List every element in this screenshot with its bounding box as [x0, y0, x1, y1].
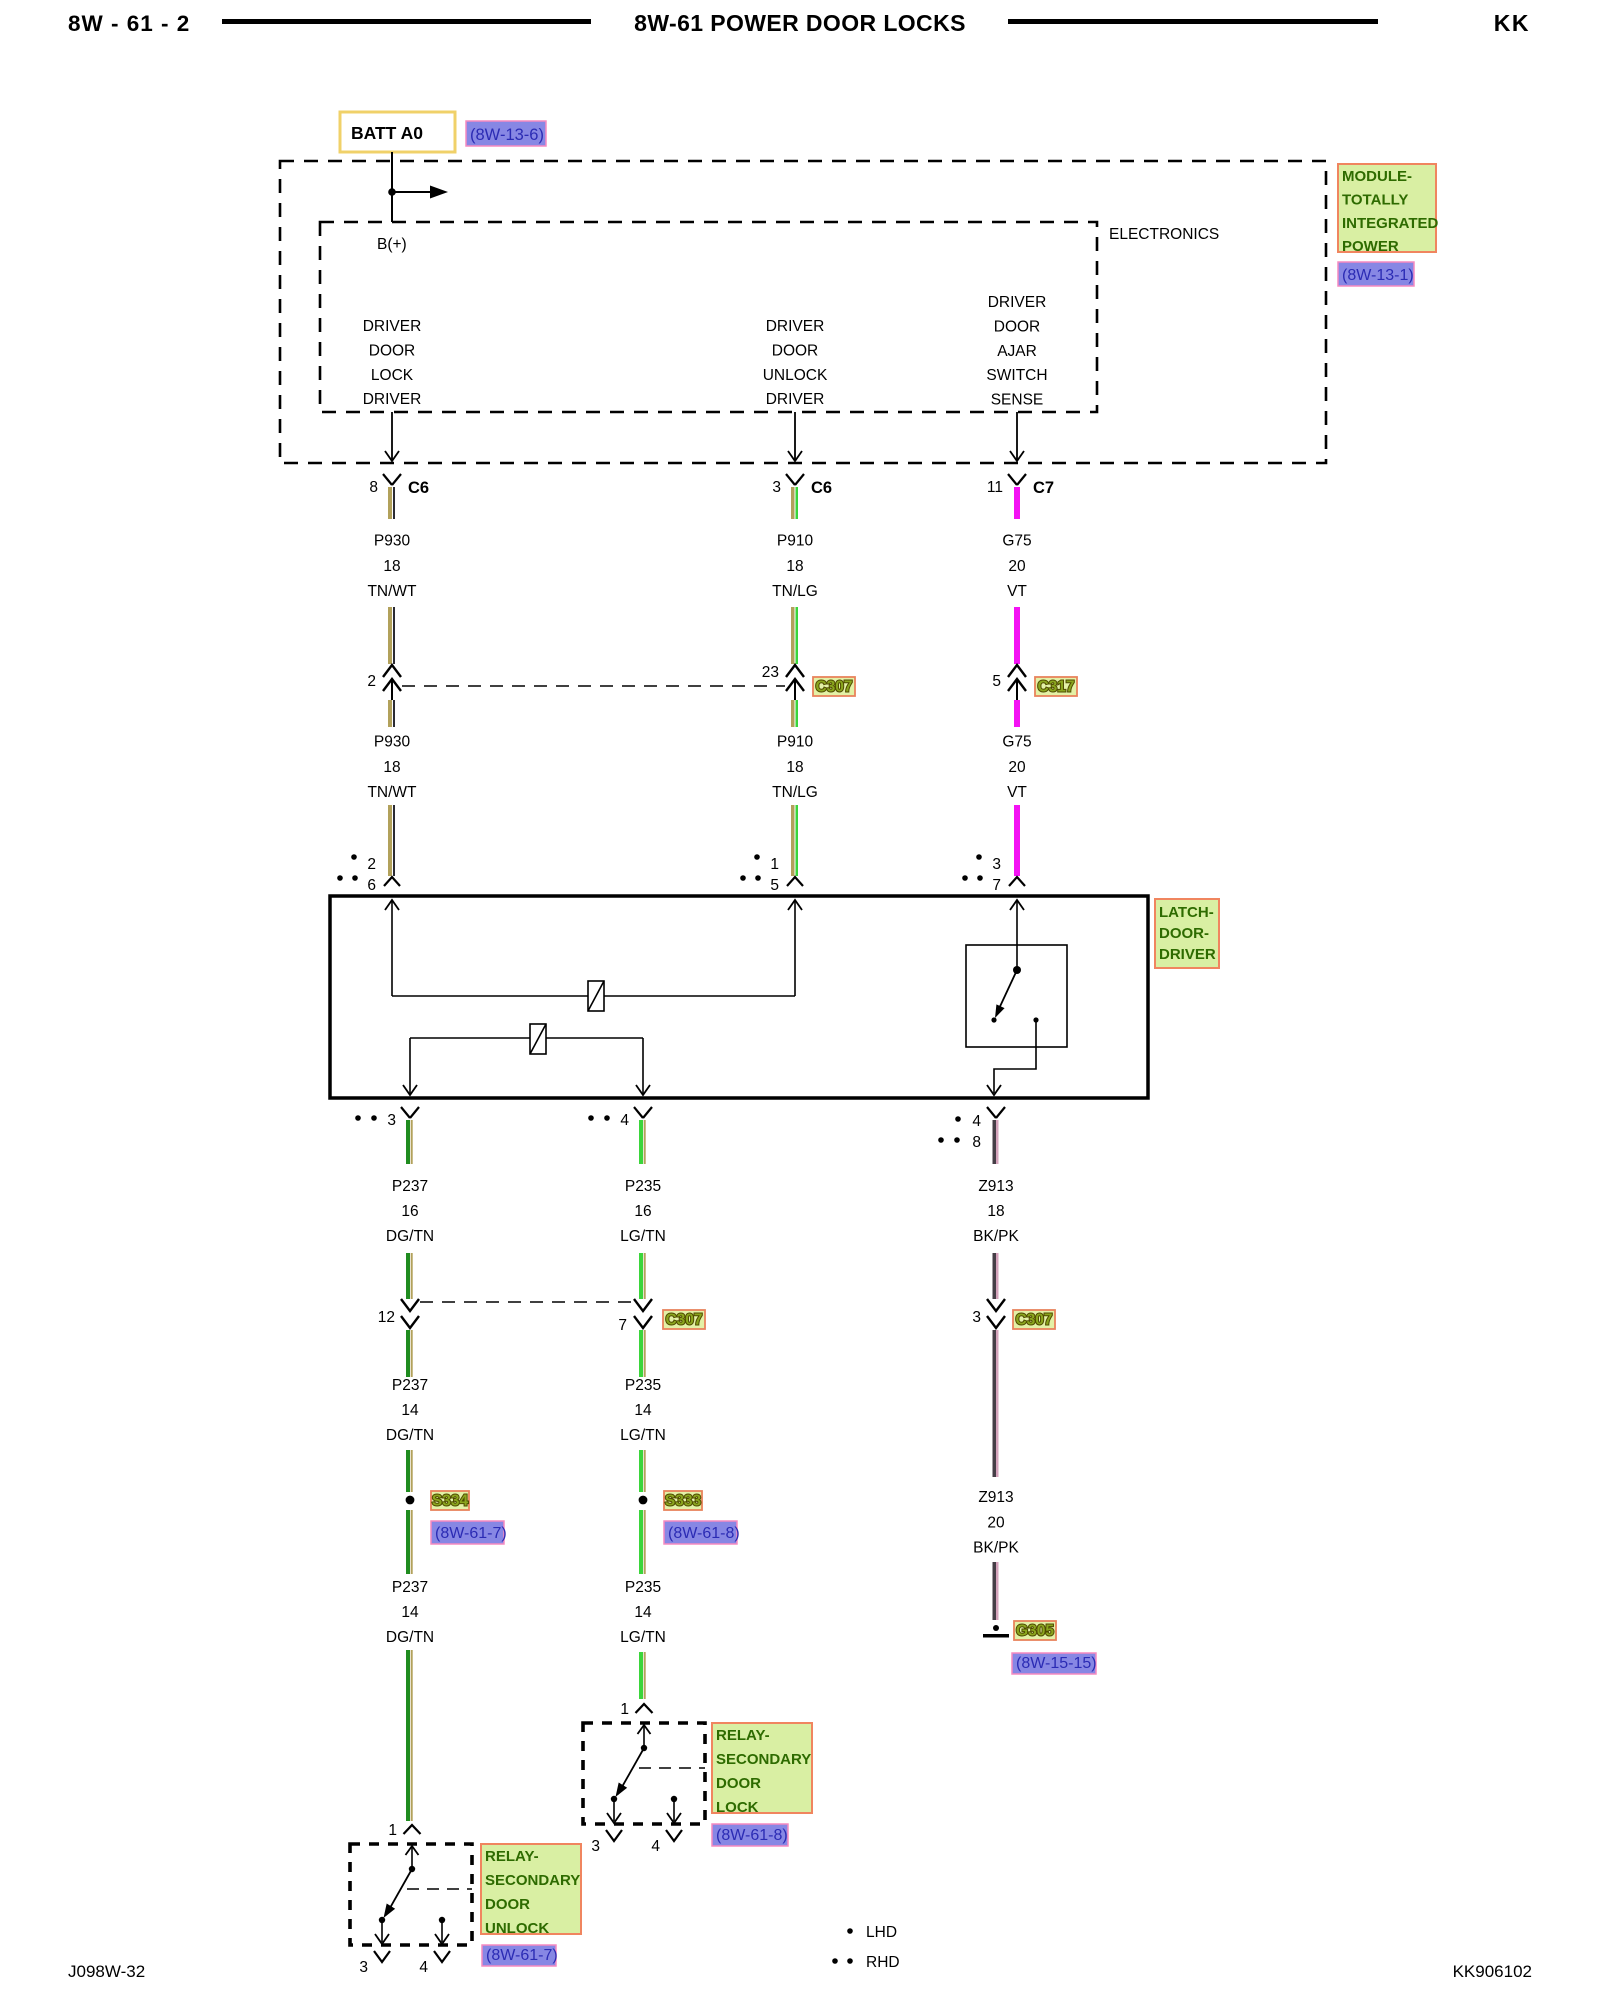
svg-text:7: 7: [992, 877, 1001, 894]
svg-text:DG/TN: DG/TN: [386, 1228, 434, 1245]
svg-text:SECONDARY: SECONDARY: [485, 1872, 580, 1889]
svg-text:P237: P237: [392, 1377, 428, 1394]
svg-text:LG/TN: LG/TN: [620, 1228, 666, 1245]
svg-text:LATCH-: LATCH-: [1159, 904, 1214, 921]
svg-text:RELAY-: RELAY-: [485, 1848, 539, 1865]
svg-text:23: 23: [762, 664, 779, 681]
svg-text:C6: C6: [408, 479, 429, 497]
svg-text:1: 1: [770, 856, 779, 873]
svg-text:AJAR: AJAR: [997, 343, 1037, 360]
svg-text:DOOR-: DOOR-: [1159, 925, 1209, 942]
svg-text:8W - 61 - 2: 8W - 61 - 2: [68, 11, 190, 36]
svg-text:DRIVER: DRIVER: [766, 318, 825, 335]
svg-text:DRIVER: DRIVER: [766, 391, 825, 408]
svg-text:3: 3: [772, 479, 781, 496]
svg-text:LOCK: LOCK: [716, 1799, 759, 1816]
svg-text:SECONDARY: SECONDARY: [716, 1751, 811, 1768]
svg-text:DG/TN: DG/TN: [386, 1427, 434, 1444]
svg-text:DOOR: DOOR: [772, 342, 819, 359]
svg-text:C307: C307: [815, 679, 852, 696]
svg-text:3: 3: [972, 1309, 981, 1326]
svg-text:TOTALLY: TOTALLY: [1342, 191, 1408, 208]
svg-text:LG/TN: LG/TN: [620, 1427, 666, 1444]
svg-text:C317: C317: [1037, 679, 1074, 696]
svg-text:Z913: Z913: [978, 1178, 1013, 1195]
svg-text:(8W-13-1): (8W-13-1): [1342, 267, 1414, 284]
svg-text:8: 8: [972, 1134, 981, 1151]
svg-text:3: 3: [387, 1112, 396, 1129]
svg-text:7: 7: [618, 1317, 627, 1334]
svg-text:DOOR: DOOR: [369, 342, 416, 359]
svg-text:P910: P910: [777, 533, 814, 550]
svg-text:LOCK: LOCK: [371, 367, 414, 384]
svg-text:TN/WT: TN/WT: [367, 583, 417, 600]
svg-text:14: 14: [634, 1604, 652, 1621]
svg-text:P235: P235: [625, 1579, 661, 1596]
svg-text:18: 18: [383, 759, 400, 776]
svg-text:VT: VT: [1007, 583, 1027, 600]
svg-text:(8W-13-6): (8W-13-6): [470, 126, 544, 144]
svg-text:SENSE: SENSE: [991, 392, 1044, 409]
svg-text:ELECTRONICS: ELECTRONICS: [1109, 226, 1219, 243]
svg-text:1: 1: [388, 1822, 397, 1839]
svg-text:KK: KK: [1494, 10, 1530, 36]
svg-text:B(+): B(+): [377, 236, 407, 253]
svg-text:20: 20: [1008, 558, 1026, 575]
svg-text:LG/TN: LG/TN: [620, 1629, 666, 1646]
svg-text:1: 1: [620, 1701, 629, 1718]
svg-text:KK906102: KK906102: [1453, 1962, 1532, 1981]
svg-text:18: 18: [987, 1203, 1004, 1220]
svg-text:DRIVER: DRIVER: [988, 294, 1047, 311]
svg-text:DOOR: DOOR: [994, 318, 1041, 335]
svg-text:14: 14: [634, 1402, 652, 1419]
svg-text:2: 2: [367, 673, 376, 690]
svg-text:P910: P910: [777, 734, 814, 751]
svg-text:C6: C6: [811, 479, 832, 497]
svg-text:20: 20: [1008, 759, 1026, 776]
svg-text:14: 14: [401, 1402, 419, 1419]
svg-text:SWITCH: SWITCH: [986, 367, 1047, 384]
svg-text:(8W-61-8): (8W-61-8): [668, 1525, 740, 1542]
svg-text:C307: C307: [1015, 1312, 1052, 1329]
svg-text:4: 4: [419, 1959, 428, 1976]
svg-text:S333: S333: [665, 1493, 702, 1510]
svg-text:8W-61 POWER DOOR LOCKS: 8W-61 POWER DOOR LOCKS: [634, 10, 966, 36]
svg-text:UNLOCK: UNLOCK: [485, 1920, 549, 1937]
svg-text:UNLOCK: UNLOCK: [763, 367, 828, 384]
svg-text:4: 4: [651, 1838, 660, 1855]
svg-text:INTEGRATED: INTEGRATED: [1342, 215, 1439, 232]
svg-text:P237: P237: [392, 1178, 428, 1195]
svg-text:(8W-15-15): (8W-15-15): [1016, 1655, 1097, 1672]
svg-text:Z913: Z913: [978, 1489, 1013, 1506]
svg-text:2: 2: [367, 856, 376, 873]
svg-text:5: 5: [770, 877, 779, 894]
svg-text:P235: P235: [625, 1377, 661, 1394]
svg-text:18: 18: [383, 558, 400, 575]
svg-text:DG/TN: DG/TN: [386, 1629, 434, 1646]
svg-text:RELAY-: RELAY-: [716, 1727, 770, 1744]
svg-text:(8W-61-7): (8W-61-7): [486, 1947, 558, 1964]
svg-text:S334: S334: [432, 1493, 469, 1510]
svg-text:J098W-32: J098W-32: [68, 1962, 145, 1981]
svg-text:P930: P930: [374, 734, 411, 751]
svg-text:TN/LG: TN/LG: [772, 583, 818, 600]
svg-text:4: 4: [620, 1112, 629, 1129]
svg-text:DOOR: DOOR: [716, 1775, 761, 1792]
svg-text:6: 6: [367, 877, 376, 894]
svg-text:20: 20: [987, 1514, 1005, 1531]
svg-text:C307: C307: [665, 1312, 702, 1329]
svg-text:TN/LG: TN/LG: [772, 784, 818, 801]
svg-text:P237: P237: [392, 1579, 428, 1596]
svg-text:DRIVER: DRIVER: [363, 318, 422, 335]
svg-text:BK/PK: BK/PK: [973, 1540, 1019, 1557]
svg-text:TN/WT: TN/WT: [367, 784, 417, 801]
svg-text:RHD: RHD: [866, 1954, 900, 1971]
svg-text:G305: G305: [1016, 1623, 1054, 1640]
svg-text:POWER: POWER: [1342, 238, 1399, 255]
svg-text:12: 12: [378, 1309, 395, 1326]
svg-text:11: 11: [987, 479, 1003, 496]
svg-text:3: 3: [359, 1959, 368, 1976]
svg-text:DOOR: DOOR: [485, 1896, 530, 1913]
svg-text:BATT A0: BATT A0: [351, 123, 423, 143]
svg-text:(8W-61-8): (8W-61-8): [716, 1827, 788, 1844]
svg-text:3: 3: [591, 1838, 600, 1855]
svg-text:18: 18: [786, 759, 803, 776]
svg-text:16: 16: [401, 1203, 418, 1220]
svg-text:LHD: LHD: [866, 1924, 897, 1941]
svg-text:G75: G75: [1002, 533, 1031, 550]
svg-text:14: 14: [401, 1604, 419, 1621]
svg-text:P235: P235: [625, 1178, 661, 1195]
svg-text:DRIVER: DRIVER: [1159, 946, 1216, 963]
svg-text:P930: P930: [374, 533, 411, 550]
svg-text:VT: VT: [1007, 784, 1027, 801]
svg-text:(8W-61-7): (8W-61-7): [435, 1525, 507, 1542]
svg-text:5: 5: [992, 673, 1001, 690]
svg-text:8: 8: [369, 479, 378, 496]
svg-text:4: 4: [972, 1113, 981, 1130]
svg-text:18: 18: [786, 558, 803, 575]
svg-text:MODULE-: MODULE-: [1342, 168, 1412, 185]
svg-text:BK/PK: BK/PK: [973, 1228, 1019, 1245]
svg-text:16: 16: [634, 1203, 651, 1220]
svg-text:DRIVER: DRIVER: [363, 391, 422, 408]
svg-text:G75: G75: [1002, 734, 1031, 751]
svg-text:C7: C7: [1033, 479, 1054, 497]
svg-text:3: 3: [992, 856, 1001, 873]
